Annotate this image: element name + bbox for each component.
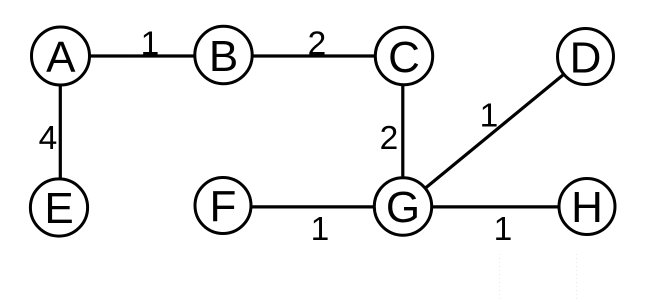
node E: [30, 179, 87, 236]
wire B-C: [224, 54, 405, 57]
svg-text:H: H: [571, 183, 603, 232]
svg-text:1: 1: [311, 211, 330, 248]
node G: [374, 178, 431, 235]
node B: [195, 26, 252, 83]
svg-text:4: 4: [39, 120, 58, 157]
node F: [195, 178, 251, 234]
node A: [32, 27, 90, 85]
svg-text:F: F: [210, 182, 237, 231]
svg-text:B: B: [209, 32, 238, 81]
wire C-G: [401, 56, 404, 207]
wire A-E: [59, 56, 62, 208]
svg-text:2: 2: [308, 26, 327, 63]
wire G-H: [403, 205, 587, 208]
wire A-B: [61, 54, 224, 57]
wire F-G: [223, 205, 403, 208]
svg-text:1: 1: [480, 98, 499, 135]
node D: [558, 29, 614, 85]
wire G-D: [403, 57, 586, 207]
svg-text:A: A: [46, 33, 76, 82]
svg-text:E: E: [44, 184, 73, 233]
svg-text:1: 1: [494, 211, 513, 248]
svg-text:G: G: [386, 183, 420, 232]
node H: [559, 179, 615, 235]
svg-text:C: C: [388, 33, 420, 82]
svg-text:1: 1: [141, 26, 160, 63]
svg-text:2: 2: [380, 120, 399, 157]
node C: [375, 27, 432, 84]
faint dotted artifact line left: [499, 254, 501, 302]
svg-text:D: D: [570, 34, 602, 83]
faint dotted artifact line right: [576, 254, 578, 302]
